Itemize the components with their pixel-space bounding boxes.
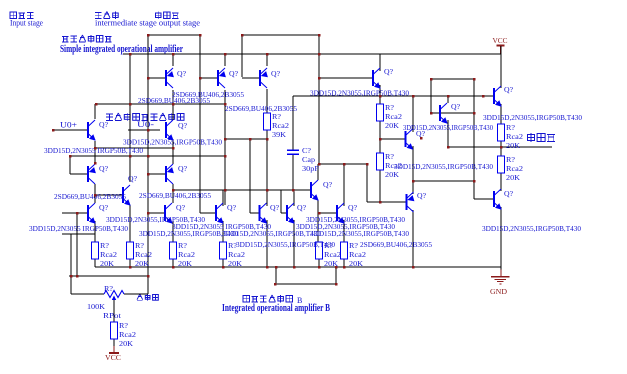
resistor Rpot bbox=[111, 322, 118, 339]
label 中间级 bbox=[95, 12, 102, 19]
svg-text:20K: 20K bbox=[100, 259, 115, 268]
junction bbox=[447, 95, 450, 98]
junction bbox=[266, 138, 269, 141]
svg-text:Q?: Q? bbox=[178, 121, 188, 130]
power VCC bottom bbox=[105, 345, 121, 362]
wire bbox=[343, 259, 345, 267]
junction bbox=[199, 77, 202, 80]
junction bbox=[129, 266, 132, 269]
wire bbox=[173, 189, 311, 191]
junction bbox=[129, 155, 132, 158]
resistor R3 bbox=[498, 124, 505, 141]
wire bbox=[276, 283, 336, 285]
junction bbox=[224, 155, 227, 158]
wire bbox=[318, 259, 320, 267]
wire bbox=[281, 212, 287, 214]
junction bbox=[379, 138, 382, 141]
wire bbox=[94, 221, 96, 242]
wire bbox=[500, 54, 502, 88]
wire bbox=[413, 180, 474, 182]
wire bbox=[473, 79, 475, 199]
wire bbox=[148, 212, 165, 214]
svg-text:2SD669,BU406,2B3055: 2SD669,BU406,2B3055 bbox=[54, 192, 126, 201]
svg-text:Input stage: Input stage bbox=[10, 19, 43, 28]
wire bbox=[242, 34, 319, 36]
junction bbox=[147, 155, 150, 158]
wire bbox=[172, 54, 174, 66]
wire bbox=[474, 198, 494, 200]
wire bbox=[280, 190, 282, 213]
transistor Q7 small bbox=[123, 185, 131, 206]
wire bbox=[95, 194, 123, 196]
wire bbox=[94, 259, 96, 267]
svg-text:R?: R? bbox=[272, 112, 282, 121]
junction bbox=[224, 189, 227, 192]
wire bbox=[94, 104, 96, 119]
junction bbox=[412, 266, 415, 269]
svg-text:3DD15D,2N3055,IRGP50B,T430: 3DD15D,2N3055,IRGP50B,T430 bbox=[483, 113, 582, 122]
label 输入级 bbox=[10, 12, 17, 19]
junction bbox=[318, 53, 321, 56]
wire bbox=[317, 164, 319, 180]
wire bbox=[249, 139, 251, 213]
wire bbox=[447, 120, 449, 147]
junction bbox=[412, 95, 415, 98]
wire bbox=[379, 170, 381, 202]
wire bbox=[319, 163, 367, 165]
junction bbox=[430, 78, 433, 81]
wire bbox=[95, 147, 173, 149]
svg-text:R?: R? bbox=[135, 241, 145, 250]
junction bbox=[473, 112, 476, 115]
svg-text:U0+: U0+ bbox=[60, 121, 78, 130]
junction bbox=[147, 34, 150, 37]
wire bbox=[266, 139, 268, 206]
svg-text:Rca2: Rca2 bbox=[100, 250, 117, 259]
transistor Q1b input- bbox=[166, 120, 174, 141]
wire bbox=[500, 141, 502, 147]
svg-text:R?: R? bbox=[349, 241, 359, 250]
wire bbox=[94, 141, 96, 164]
junction bbox=[147, 173, 150, 176]
wire bbox=[500, 147, 502, 156]
resistor Rc bbox=[377, 153, 384, 170]
svg-text:Q?: Q? bbox=[128, 174, 138, 183]
junction bbox=[473, 78, 476, 81]
svg-text:20K: 20K bbox=[349, 259, 364, 268]
svg-text:R?: R? bbox=[178, 241, 188, 250]
resistor Rd bbox=[341, 242, 348, 259]
svg-text:30pF: 30pF bbox=[302, 164, 319, 173]
transistor Q8 pnp row2 bbox=[166, 164, 174, 184]
resistor Rb bbox=[377, 104, 384, 121]
svg-text:Rca2: Rca2 bbox=[506, 164, 523, 173]
svg-text:Rca2: Rca2 bbox=[506, 132, 523, 141]
wire bbox=[317, 200, 319, 242]
label 调零端 bbox=[137, 294, 143, 300]
wire bbox=[222, 221, 224, 242]
svg-text:20K: 20K bbox=[506, 173, 521, 182]
svg-text:R?: R? bbox=[385, 103, 395, 112]
svg-text:3DD15D,2N3055,IRGP50B,T430: 3DD15D,2N3055,IRGP50B,T430 bbox=[394, 162, 493, 171]
wire bbox=[172, 221, 174, 242]
wire bbox=[500, 173, 502, 191]
wire bbox=[53, 129, 88, 131]
junction bbox=[274, 283, 277, 286]
svg-text:Rca2: Rca2 bbox=[228, 250, 245, 259]
transistor Q2 pnp bbox=[88, 164, 96, 184]
junction bbox=[94, 162, 97, 165]
transistor Q3 bbox=[88, 203, 96, 224]
wire bbox=[124, 293, 148, 295]
svg-text:3DD15D,2N3055,IRGP50B,T430: 3DD15D,2N3055,IRGP50B,T430 bbox=[482, 224, 581, 233]
junction bbox=[94, 147, 97, 150]
svg-text:R?: R? bbox=[100, 241, 110, 250]
junction bbox=[76, 212, 79, 215]
junction bbox=[292, 189, 295, 192]
svg-text:VCC: VCC bbox=[105, 353, 121, 362]
svg-text:Rca2: Rca2 bbox=[119, 330, 136, 339]
wire bbox=[266, 130, 268, 139]
wire bbox=[94, 184, 96, 203]
wire bbox=[293, 190, 295, 206]
junction bbox=[249, 138, 252, 141]
junction bbox=[95, 103, 98, 106]
wire bbox=[71, 293, 104, 295]
svg-text:U0-: U0- bbox=[137, 120, 154, 129]
wire bbox=[380, 138, 405, 140]
junction bbox=[172, 147, 175, 150]
svg-text:Q?: Q? bbox=[99, 120, 109, 129]
svg-text:20K: 20K bbox=[506, 141, 521, 150]
wire bbox=[172, 184, 174, 203]
wire bbox=[412, 210, 414, 267]
capacitor C1 bbox=[287, 150, 299, 154]
svg-text:20K: 20K bbox=[385, 170, 400, 179]
wire bbox=[431, 78, 474, 80]
wire bbox=[225, 138, 267, 140]
transistor Q19 mid-left bbox=[311, 180, 319, 201]
wire bbox=[129, 259, 131, 267]
svg-text:Q?: Q? bbox=[384, 67, 394, 76]
wire bbox=[200, 77, 218, 79]
transistor Q17 out top bbox=[494, 86, 502, 107]
svg-text:GND: GND bbox=[490, 287, 508, 296]
junction bbox=[343, 266, 346, 269]
junction bbox=[412, 180, 415, 183]
wire bbox=[379, 121, 381, 153]
junction bbox=[335, 266, 338, 269]
wire bbox=[275, 267, 277, 284]
transistor Q16 rect bbox=[440, 103, 448, 124]
wire bbox=[367, 201, 407, 203]
junction bbox=[147, 77, 150, 80]
label 简单集成运放 bbox=[62, 37, 69, 43]
svg-text:Q?: Q? bbox=[99, 164, 109, 173]
svg-text:Integrated operational amplifi: Integrated operational amplifier B bbox=[222, 303, 330, 314]
svg-text:2SD669,BU406,2B3055: 2SD669,BU406,2B3055 bbox=[360, 240, 432, 249]
svg-text:Q?: Q? bbox=[99, 203, 109, 212]
junction bbox=[318, 77, 321, 80]
svg-text:3DD15D,2N3055,IRGP50B,T430: 3DD15D,2N3055,IRGP50B,T430 bbox=[222, 229, 321, 238]
wire bbox=[172, 140, 174, 164]
junction bbox=[335, 283, 338, 286]
svg-text:Q?: Q? bbox=[417, 191, 427, 200]
svg-text:Cap: Cap bbox=[302, 155, 315, 164]
svg-text:Q?: Q? bbox=[227, 203, 237, 212]
wire bbox=[500, 207, 502, 267]
wire bbox=[148, 173, 166, 175]
wire bbox=[379, 54, 381, 71]
svg-text:Rca2: Rca2 bbox=[385, 112, 402, 121]
wire bbox=[224, 90, 226, 205]
junction bbox=[318, 163, 321, 166]
junction bbox=[129, 53, 132, 56]
wire bbox=[200, 212, 216, 214]
resistor R4 bbox=[498, 156, 505, 173]
wire bbox=[224, 54, 226, 66]
wire bbox=[343, 220, 345, 242]
wire bbox=[266, 54, 268, 66]
wire bbox=[199, 35, 201, 213]
junction bbox=[430, 112, 433, 115]
svg-text:intermediate stage output stag: intermediate stage output stage bbox=[95, 19, 200, 28]
wire bbox=[242, 77, 260, 79]
wire bbox=[250, 212, 259, 214]
wire bbox=[448, 146, 552, 148]
wire bbox=[70, 155, 225, 157]
wire bbox=[318, 35, 320, 164]
svg-text:2SD669,BU406,2B3055: 2SD669,BU406,2B3055 bbox=[139, 191, 211, 200]
svg-text:20K: 20K bbox=[228, 259, 243, 268]
wire bbox=[266, 220, 268, 267]
resistor R2b bbox=[127, 242, 134, 259]
svg-text:RPot: RPot bbox=[103, 311, 122, 320]
svg-text:R?: R? bbox=[506, 123, 516, 132]
junction bbox=[172, 53, 175, 56]
svg-text:Rca2: Rca2 bbox=[135, 250, 152, 259]
svg-text:2SD669,BU406,2B3055: 2SD669,BU406,2B3055 bbox=[225, 104, 297, 113]
svg-text:Q?: Q? bbox=[504, 85, 514, 94]
junction bbox=[222, 266, 225, 269]
svg-text:3DD15D,2N3055 IRGP50B,T430: 3DD15D,2N3055 IRGP50B,T430 bbox=[44, 146, 143, 155]
svg-text:Q?: Q? bbox=[177, 69, 187, 78]
svg-text:3DD15D,2N3055,IRGP50B,T430: 3DD15D,2N3055,IRGP50B,T430 bbox=[403, 123, 493, 132]
wire bbox=[266, 89, 268, 113]
svg-text:20K: 20K bbox=[135, 259, 150, 268]
junction bbox=[199, 34, 202, 37]
junction bbox=[224, 53, 227, 56]
svg-text:Q?: Q? bbox=[270, 203, 280, 212]
junction bbox=[241, 34, 244, 37]
transistor Q15 pnp mid bbox=[407, 192, 415, 212]
wire bbox=[148, 77, 166, 79]
wire bbox=[147, 35, 149, 276]
junction bbox=[318, 34, 321, 37]
label 集成运放反相输入端 bbox=[106, 114, 113, 121]
transistor Q5 pnp row1 bbox=[218, 68, 226, 88]
svg-text:3DD15D,2N3055,IRGP50B,T430: 3DD15D,2N3055,IRGP50B,T430 bbox=[236, 240, 335, 249]
wire bbox=[335, 267, 337, 284]
transistor Q1 input+ bbox=[88, 120, 96, 141]
wire bbox=[128, 129, 160, 131]
junction bbox=[482, 95, 485, 98]
junction bbox=[147, 212, 150, 215]
wire bbox=[241, 35, 243, 77]
transistor Q6 pnp row1 bbox=[260, 68, 268, 88]
svg-text:R?: R? bbox=[385, 152, 395, 161]
wire bbox=[431, 112, 474, 114]
wire bbox=[95, 266, 501, 268]
junction bbox=[147, 275, 150, 278]
transistor Q14 mid bbox=[406, 129, 414, 150]
transistor Q20 row3 bbox=[337, 203, 345, 224]
junction bbox=[473, 180, 476, 183]
junction bbox=[94, 194, 97, 197]
svg-text:Rca2: Rca2 bbox=[178, 250, 195, 259]
junction bbox=[343, 163, 346, 166]
label 输出端 bbox=[528, 133, 535, 142]
transistor Q13 mid bbox=[373, 68, 381, 89]
junction bbox=[69, 155, 72, 158]
wire bbox=[293, 95, 494, 97]
svg-text:3DD15D,2N3055,IRGP50B,T430: 3DD15D,2N3055,IRGP50B,T430 bbox=[123, 138, 222, 147]
wire bbox=[366, 164, 368, 202]
junction bbox=[275, 266, 278, 269]
junction bbox=[447, 146, 450, 149]
wire bbox=[222, 190, 224, 206]
junction bbox=[224, 103, 227, 106]
junction bbox=[379, 95, 382, 98]
wire bbox=[129, 54, 131, 182]
wire bbox=[292, 96, 294, 150]
power VCC top bbox=[493, 36, 508, 54]
transistor Q9 row3 bbox=[165, 203, 173, 224]
junction bbox=[172, 189, 175, 192]
transistor Q10 row3 bbox=[216, 203, 224, 224]
svg-text:C?: C? bbox=[302, 146, 312, 155]
wire bbox=[293, 220, 295, 267]
wire bbox=[113, 339, 115, 346]
junction bbox=[224, 138, 227, 141]
svg-text:Q?: Q? bbox=[451, 102, 461, 111]
transistor Q18 out bottom bbox=[494, 189, 502, 210]
junction bbox=[379, 201, 382, 204]
junction bbox=[129, 103, 132, 106]
wire bbox=[292, 154, 294, 190]
junction bbox=[76, 275, 79, 278]
svg-text:Q?: Q? bbox=[178, 164, 188, 173]
potentiometer R? 100K bbox=[104, 291, 124, 301]
svg-text:Q?: Q? bbox=[229, 69, 239, 78]
wire bbox=[447, 96, 449, 103]
wire bbox=[69, 156, 71, 174]
junction bbox=[52, 129, 55, 132]
junction bbox=[420, 137, 423, 140]
junction bbox=[70, 275, 73, 278]
label 集成运放电路B bbox=[243, 296, 250, 303]
junction bbox=[266, 266, 269, 269]
label 输出级 bbox=[156, 12, 162, 20]
transistor Q11 row3 bbox=[260, 203, 268, 224]
wire bbox=[172, 90, 174, 120]
svg-text:20K: 20K bbox=[178, 259, 193, 268]
svg-text:Q?: Q? bbox=[348, 203, 358, 212]
svg-text:Rca2: Rca2 bbox=[349, 250, 366, 259]
svg-text:R?: R? bbox=[506, 155, 516, 164]
wire bbox=[147, 276, 149, 294]
svg-text:100K: 100K bbox=[87, 302, 106, 311]
svg-text:3DD15D,2N3055 IRGP50B,T430: 3DD15D,2N3055 IRGP50B,T430 bbox=[29, 224, 128, 233]
resistor R1b bbox=[92, 242, 99, 259]
resistor R3b bbox=[170, 242, 177, 259]
svg-text:Simple integrated operational: Simple integrated operational amplifier bbox=[60, 44, 183, 55]
svg-text:Q?: Q? bbox=[504, 189, 514, 198]
junction bbox=[366, 163, 369, 166]
wire bbox=[70, 173, 88, 175]
wire bbox=[129, 205, 131, 242]
resistor R5b bbox=[316, 242, 323, 259]
transistor Q4 pnp row1 bbox=[166, 68, 174, 88]
ground GND bbox=[490, 267, 510, 296]
svg-text:VCC: VCC bbox=[493, 36, 508, 45]
svg-text:Q?: Q? bbox=[297, 203, 307, 212]
wire bbox=[70, 234, 72, 294]
junction bbox=[318, 266, 321, 269]
resistor R4b bbox=[220, 242, 227, 259]
wire bbox=[430, 79, 432, 113]
wire bbox=[379, 96, 381, 104]
wire bbox=[319, 212, 337, 214]
svg-text:Rca2: Rca2 bbox=[324, 250, 341, 259]
wire bbox=[500, 46, 502, 54]
junction bbox=[500, 146, 503, 149]
wire bbox=[123, 53, 501, 55]
resistor R39K bbox=[264, 113, 271, 130]
wire bbox=[69, 275, 148, 277]
wire bbox=[76, 213, 78, 276]
wire bbox=[62, 233, 95, 235]
svg-text:Q?: Q? bbox=[271, 69, 281, 78]
wire bbox=[319, 77, 373, 79]
svg-text:3DD15D,2N3055,IRGP50B,T430: 3DD15D,2N3055,IRGP50B,T430 bbox=[310, 89, 409, 98]
junction bbox=[318, 212, 321, 215]
junction bbox=[293, 266, 296, 269]
wire bbox=[113, 299, 115, 322]
svg-text:20K: 20K bbox=[385, 121, 400, 130]
wire bbox=[343, 164, 345, 206]
transistor Q12 row3 bbox=[287, 203, 295, 224]
svg-text:R?: R? bbox=[119, 321, 129, 330]
wire bbox=[222, 259, 224, 267]
svg-text:20K: 20K bbox=[119, 339, 134, 348]
wire bbox=[500, 104, 502, 124]
svg-text:Rca2: Rca2 bbox=[272, 121, 289, 130]
wire bbox=[148, 34, 200, 36]
junction bbox=[172, 266, 175, 269]
wire bbox=[412, 146, 414, 194]
junction bbox=[147, 129, 150, 132]
wire bbox=[96, 103, 225, 105]
svg-text:R?: R? bbox=[104, 284, 114, 293]
svg-text:Q?: Q? bbox=[323, 180, 333, 189]
wire bbox=[172, 259, 174, 267]
junction bbox=[172, 103, 175, 106]
svg-text:Q?: Q? bbox=[176, 203, 186, 212]
junction bbox=[266, 53, 269, 56]
wire bbox=[62, 212, 88, 214]
svg-text:39K: 39K bbox=[272, 130, 287, 139]
